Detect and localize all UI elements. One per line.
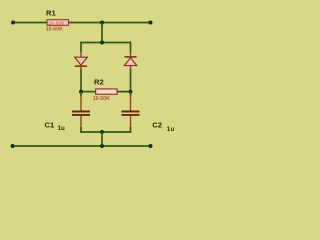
svg-text:10-50K: 10-50K (46, 27, 63, 33)
node top-right terminal dot (149, 21, 153, 25)
wire right diode branch lower (130, 69, 132, 92)
svg-text:R1: R1 (46, 8, 56, 17)
wire left diode branch lower (80, 69, 82, 92)
wire capacitor-bottom horizontal (81, 131, 131, 133)
capacitor C2 lead lower (130, 116, 132, 129)
diode D1 left (cathode down) (75, 51, 88, 70)
capacitor C1 lead lower (80, 116, 82, 129)
junction R2 right (129, 90, 133, 94)
wire left diode branch upper (80, 42, 82, 53)
junction top center (100, 21, 104, 25)
capacitor C2 lead upper (130, 92, 132, 96)
diode D2 right (cathode up) (124, 52, 137, 70)
junction bottom rail (100, 144, 104, 148)
node bottom-left terminal dot (11, 144, 15, 148)
resistor R2 (96, 89, 118, 94)
wire R2 row right stub (118, 91, 131, 93)
svg-text:1u: 1u (58, 125, 65, 132)
wire vertical from top junction (101, 23, 103, 43)
junction diode row (100, 41, 104, 45)
wire top horizontal left of R1 (13, 22, 48, 24)
svg-text:1u: 1u (167, 126, 175, 133)
wire diode row horizontal (81, 42, 131, 44)
svg-text:R2: R2 (94, 78, 104, 87)
wire bottom rail (13, 145, 151, 147)
wire vertical to bottom rail (101, 132, 103, 146)
svg-text:C2: C2 (152, 120, 162, 129)
capacitor C2 plates (122, 112, 140, 115)
resistor R1 (47, 20, 69, 26)
junction capacitor-bottom (100, 130, 104, 134)
node top-left terminal dot (11, 21, 15, 25)
wire right diode branch upper (130, 42, 132, 54)
svg-text:10-50K: 10-50K (49, 21, 65, 26)
wire top horizontal right of R1 (68, 22, 151, 24)
wire R2 row left stub (81, 91, 96, 93)
svg-text:10-50K: 10-50K (93, 96, 110, 102)
node bottom-right terminal dot (149, 144, 153, 148)
capacitor C1 plates (72, 112, 90, 115)
capacitor C1 lead upper (80, 92, 82, 96)
junction R2 left (79, 90, 83, 94)
svg-text:C1: C1 (45, 120, 55, 129)
